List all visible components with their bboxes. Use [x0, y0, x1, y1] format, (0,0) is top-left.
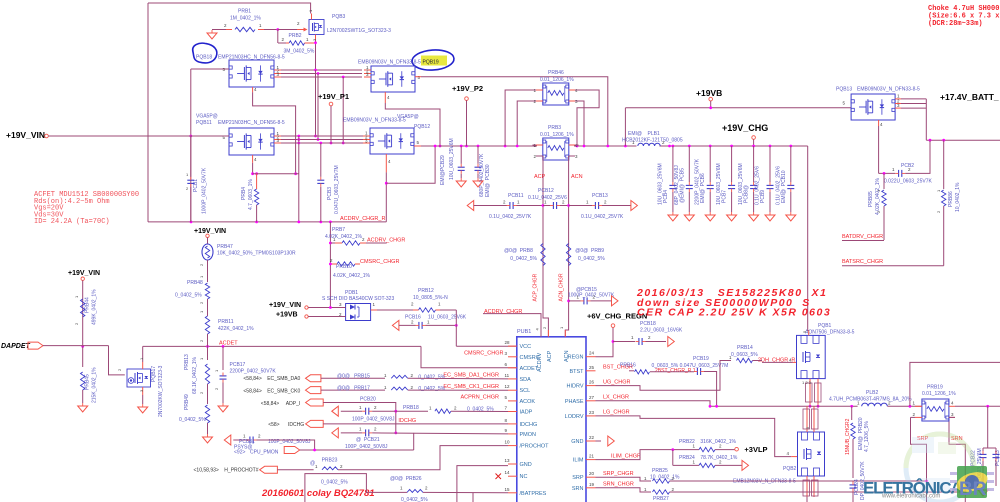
pin 1: [577, 295, 580, 300]
transistor PQB3: [309, 20, 324, 35]
label PCB20: [360, 397, 376, 403]
wire battery loop: [910, 362, 1000, 406]
svg-text:4.7_1206_5%: 4.7_1206_5%: [864, 421, 870, 452]
pin number 7: [505, 406, 508, 411]
pin: [536, 100, 543, 102]
svg-text:680P_0402_50V7K: 680P_0402_50V7K: [479, 153, 485, 197]
svg-text:PHASE: PHASE: [565, 399, 584, 405]
label PRB48: [187, 280, 203, 286]
svg-text:PQB11: PQB11: [196, 120, 212, 126]
svg-text:CMSRC: CMSRC: [520, 355, 540, 361]
svg-text:PQB3: PQB3: [332, 14, 346, 20]
capacitor PCB1: [187, 177, 194, 187]
wire PCB11 to ACP: [517, 205, 544, 207]
wire to PDB1 pin2: [308, 316, 345, 318]
pin 2: [908, 167, 911, 172]
junction: [668, 145, 671, 148]
value PCB12: [528, 195, 567, 201]
svg-text:@EMI@ PCB5: @EMI@ PCB5: [679, 168, 685, 203]
junction: [709, 145, 712, 148]
wire PCB3 bottom: [320, 187, 322, 222]
ground PRB49: [203, 434, 213, 443]
highlight PQB19 yellow: [421, 56, 447, 66]
value PRB1: [230, 16, 261, 22]
value PRB7: [325, 234, 363, 240]
wire PCB12 to ACN: [560, 205, 569, 207]
wire PQB13 to 17V rail: [925, 99, 927, 140]
svg-text:27: 27: [589, 395, 595, 400]
wire Q1 d1: [281, 69, 362, 71]
junction: [317, 138, 320, 141]
wire BATPRES left: [305, 474, 407, 502]
pin 1: [277, 65, 280, 70]
svg-text:26: 26: [589, 380, 595, 385]
wire PQB3 source down: [315, 40, 317, 70]
pin 2: [454, 406, 457, 411]
wire @EMI@ PCB5 bottom: [688, 192, 690, 212]
svg-text:15: 15: [505, 487, 511, 492]
wire ACDET to pin6: [421, 346, 517, 367]
wire +19VB rail: [625, 107, 851, 109]
junction: [319, 142, 322, 145]
capacitor PCB29: [458, 164, 465, 174]
wire to PCB11: [474, 205, 507, 207]
svg-text:+19V_P2: +19V_P2: [452, 84, 483, 93]
svg-text:PRB3: PRB3: [548, 125, 561, 131]
junction: [504, 145, 507, 148]
wire PQB17 drain up: [142, 346, 144, 362]
pin PQB2 source b: [813, 476, 815, 497]
svg-text:S SCH DIO BAS40CW SOT-323: S SCH DIO BAS40CW SOT-323: [322, 296, 394, 302]
junction: [329, 263, 332, 266]
svg-text:ACP: ACP: [547, 350, 553, 362]
svg-text:68.1K_0402_1%: 68.1K_0402_1%: [192, 356, 198, 394]
pin 2: [366, 68, 369, 73]
name SDA: [520, 377, 532, 383]
junction: [329, 306, 332, 309]
svg-text:ACDRV_CHGR: ACDRV_CHGR: [367, 238, 405, 244]
svg-text:ACPRN_CHGR: ACPRN_CHGR: [460, 395, 499, 401]
svg-text:100P_0402_50V8J: 100P_0402_50V8J: [352, 417, 395, 423]
wire Q3 pin4 jog: [385, 103, 440, 146]
label PRB15: [337, 374, 370, 380]
resistor PRB24: [699, 463, 715, 467]
svg-text:10K_0402_50%_TPM0S103P130R: 10K_0402_50%_TPM0S103P130R: [217, 251, 296, 257]
svg-text:www.eletronicabr.com: www.eletronicabr.com: [881, 494, 940, 500]
ground PCB8@: [749, 212, 759, 221]
pin 2: [186, 186, 189, 191]
svg-text:4.02K_0402_1%: 4.02K_0402_1%: [325, 234, 363, 240]
resistor PRB7: [342, 241, 360, 245]
power +19V_VIN col3: [206, 234, 209, 237]
wire PRB1 to node: [264, 29, 278, 31]
pin PQB2 gate: [791, 456, 797, 458]
svg-text:(DCR:28m~33m): (DCR:28m~33m): [928, 20, 983, 28]
wire to VCC: [456, 345, 517, 347]
junction: [206, 345, 209, 348]
value PCB3: [334, 165, 340, 214]
svg-text:EMI@PCB29: EMI@PCB29: [440, 155, 446, 185]
value @EMI@ PCB5: [674, 165, 680, 205]
value PRB23: [321, 480, 348, 486]
svg-text:21: 21: [589, 454, 595, 459]
annotation choke: [928, 5, 1000, 28]
transistor Q1 EMP21N03HC: [229, 60, 274, 87]
wire to PCB31: [233, 439, 246, 441]
svg-text:GND: GND: [571, 439, 583, 445]
svg-text:+19VB: +19VB: [696, 88, 722, 98]
resistor PRB1: [235, 27, 255, 31]
wire to PCB17: [222, 346, 224, 370]
off-page connector PCB31: [224, 435, 231, 445]
svg-text:1 2 3: 1 2 3: [802, 380, 812, 385]
power +19VB: [709, 97, 713, 107]
wire PCB22 top: [982, 448, 984, 451]
svg-text:PCB20: PCB20: [360, 397, 376, 403]
pin 1: [586, 200, 589, 205]
pin number 13: [505, 458, 511, 463]
pin number 27: [589, 395, 595, 400]
pin 4 PQB2: [786, 451, 789, 456]
svg-text:2N7002KW_SOT323-3: 2N7002KW_SOT323-3: [158, 365, 164, 417]
svg-text:SDA: SDA: [520, 377, 532, 383]
annotation 20160601: [261, 488, 375, 499]
pin PDB1 cathode: [371, 309, 377, 311]
pin 27 PHASE: [586, 400, 596, 402]
junction: [342, 76, 345, 79]
wire SRN long: [670, 491, 966, 493]
net ACP_CHGR: [533, 273, 539, 301]
label @EMI@ PCB5: [679, 168, 685, 203]
net LX_CHGR: [603, 395, 629, 401]
svg-text:PRB16: PRB16: [620, 363, 636, 369]
wire PRB23 to PROCHOT: [338, 446, 508, 470]
svg-text:<58,84>: <58,84>: [243, 376, 261, 382]
wire Q4 pin4 down: [385, 172, 387, 222]
svg-text:ACP: ACP: [534, 174, 546, 180]
label EMI@ PCB10: [781, 170, 787, 203]
pin: [413, 309, 419, 311]
svg-text:L2N7002SWT1G_SOT323-3: L2N7002SWT1G_SOT323-3: [327, 28, 391, 34]
pin 7 IADP: [508, 411, 517, 413]
wire to PCB22/23: [987, 406, 989, 448]
ref CPU_PMON: [234, 450, 245, 456]
name IADP: [520, 410, 533, 416]
capacitor PCB2: [895, 170, 905, 177]
label PRB8 at: [504, 248, 533, 254]
svg-text:+19V_VIN: +19V_VIN: [6, 130, 45, 140]
wire PCB13 to portal: [602, 205, 631, 207]
capacitor PCB15: [581, 297, 591, 304]
label PRB26: [390, 476, 422, 482]
net EC_SMB_CK1_CHGR: [443, 384, 499, 390]
net DH_CHGR_R: [758, 358, 795, 364]
svg-text:<10,58,93>: <10,58,93>: [194, 468, 219, 474]
wire PCB4 top: [672, 146, 674, 182]
pin: [364, 73, 371, 75]
transistor PQB17: [127, 369, 151, 387]
pin 24 REGN: [586, 356, 596, 358]
wire PRB2 up to gate node: [277, 30, 279, 44]
ground PCB30: [473, 178, 483, 187]
pin 1: [429, 406, 432, 411]
value PRB45: [92, 367, 98, 403]
wire UG_CHGR: [596, 361, 732, 391]
svg-text:BATSRC_CHGR: BATSRC_CHGR: [842, 259, 883, 265]
pin number 20: [589, 471, 595, 476]
label PRB10: [336, 264, 352, 270]
svg-text:20160601 colay BQ24781: 20160601 colay BQ24781: [261, 488, 375, 499]
junction: [314, 69, 317, 72]
net +19V_P1: [318, 92, 349, 101]
value PRB25: [650, 475, 680, 481]
label PRB22: [679, 439, 695, 445]
wire +19VB to rail: [624, 108, 626, 146]
svg-text:0.1U_0402_25V6: 0.1U_0402_25V6: [775, 166, 781, 205]
junction: [606, 145, 609, 148]
svg-text:BR: BR: [959, 479, 987, 500]
pin 2: [282, 37, 285, 42]
ground PCB9: [765, 212, 775, 221]
pin Q4 pin4: [385, 154, 387, 172]
net +19V_P2: [452, 84, 483, 93]
svg-text:ILIM_CHGR: ILIM_CHGR: [611, 453, 641, 459]
label PQB11: [196, 120, 212, 126]
pin 3 PRB19: [951, 412, 954, 417]
pin 2 PLB1: [662, 140, 665, 145]
wire PCB29 top: [460, 146, 462, 164]
svg-text:AON7506_DFN33-8-5: AON7506_DFN33-8-5: [805, 330, 855, 336]
pin 3: [575, 154, 578, 159]
svg-text:PUB1: PUB1: [517, 329, 531, 335]
junction: [294, 172, 297, 175]
wire PRB24 out: [715, 464, 742, 466]
name ACOK: [520, 399, 536, 405]
pin 1: [359, 405, 362, 410]
pin number 3: [505, 351, 508, 356]
value PQB13: [857, 87, 920, 93]
pin 1: [74, 295, 79, 298]
svg-text:1M_0402_1%: 1M_0402_1%: [230, 16, 261, 22]
svg-text:ADP_I: ADP_I: [286, 401, 300, 407]
net +19VB: [696, 88, 722, 98]
power +19V_VIN col2: [81, 277, 84, 280]
pin: [363, 139, 370, 141]
pin: [274, 73, 281, 75]
pin 1 PRB19: [912, 401, 915, 406]
svg-text:<58,84>: <58,84>: [243, 388, 261, 394]
pin 1: [892, 167, 895, 172]
pin number 15: [505, 487, 511, 492]
svg-text:PRB11: PRB11: [218, 319, 234, 325]
label PQB1: [818, 323, 832, 329]
svg-text:PQB19: PQB19: [423, 60, 439, 66]
junction: [276, 28, 279, 31]
junction: [883, 172, 886, 175]
wire PRB12 to node: [440, 309, 456, 311]
wire PRB46 p1: [505, 90, 536, 146]
pin PQB17 drain: [142, 362, 144, 369]
label PSYS@: [234, 445, 252, 451]
wire 17V rail: [926, 139, 1000, 141]
pin 2: [411, 319, 414, 324]
svg-text:PRB18: PRB18: [403, 405, 419, 411]
svg-text:28: 28: [505, 340, 511, 345]
net ACP: [534, 174, 546, 180]
net +19V_VIN small: [269, 302, 301, 309]
pin 10 /PROCHOT: [508, 445, 517, 447]
wire bus v3: [342, 77, 344, 143]
svg-text:24: 24: [589, 351, 595, 356]
resistor PRB25: [653, 479, 670, 483]
wire PCB16 node: [426, 324, 457, 326]
svg-text:CMSRC_CHGR: CMSRC_CHGR: [464, 351, 503, 357]
junction: [394, 410, 397, 413]
capacitor EMI@ PCB6: [707, 182, 714, 192]
label @: [310, 461, 315, 467]
name ILIM: [573, 458, 584, 464]
junction: [394, 432, 397, 435]
junction: [542, 204, 545, 207]
pin 1: [631, 335, 634, 340]
thermistor PRB47: [202, 244, 213, 260]
pin 9 PMON: [508, 433, 517, 435]
value PLB2: [829, 397, 912, 403]
capacitor PCB18: [636, 338, 646, 345]
pin 4: [387, 95, 390, 100]
net ADP_I: [286, 401, 300, 407]
wire PRB46 p4: [575, 90, 599, 146]
value PDB1: [322, 296, 394, 302]
pin 2: [277, 134, 280, 139]
pin 15 /BATPRES: [508, 492, 517, 494]
pin PQB13 source: [878, 120, 880, 126]
svg-text:+19V_VIN: +19V_VIN: [68, 270, 100, 277]
value PRB10: [333, 273, 371, 279]
pin 2: [411, 373, 414, 378]
pin number 23: [589, 410, 595, 415]
value PRB44: [92, 289, 98, 325]
svg-text:1000P_0402_50V7K: 1000P_0402_50V7K: [202, 167, 208, 214]
name SRP: [572, 475, 584, 481]
wire ground to PRB1: [212, 29, 226, 31]
svg-text:422K_0402_1%: 422K_0402_1%: [218, 326, 254, 332]
pin 2: [199, 339, 204, 342]
pin number 10: [505, 440, 511, 445]
capacitor PCB30: [475, 164, 482, 174]
pin 4: [789, 358, 792, 363]
svg-text:<58>: <58>: [268, 422, 279, 428]
diode PDB1: [346, 304, 371, 321]
svg-text:ACOK: ACOK: [520, 399, 536, 405]
pin boxes PQB2 top: [803, 409, 818, 429]
label PRB19: [927, 385, 943, 391]
value PCB16: [428, 315, 467, 321]
wire Q2 d2: [281, 139, 366, 141]
pin: [355, 263, 360, 265]
svg-text:PQB1: PQB1: [818, 323, 832, 329]
pin 1: [365, 131, 368, 136]
svg-text:+19V_P1: +19V_P1: [318, 92, 349, 101]
pin: [360, 242, 366, 244]
value PRB16: [652, 363, 729, 369]
net ACDET: [219, 341, 238, 347]
junction: [909, 405, 912, 408]
wire SRN to PRB27: [596, 488, 652, 492]
wire DAPDET: [43, 345, 109, 347]
junction: [385, 182, 388, 185]
svg-text:PCB11: PCB11: [508, 193, 524, 199]
junction: [81, 345, 84, 348]
label PUB1: [517, 329, 531, 335]
pin 1 PRB27: [644, 487, 647, 492]
label PRB47: [217, 244, 233, 250]
wire to PRB86: [943, 140, 945, 189]
wire EMI@ PCB6 bottom: [709, 192, 711, 212]
pin PQB3 gate: [297, 29, 304, 31]
label PRB27: [653, 496, 669, 502]
capacitor PCB3: [317, 177, 324, 187]
wire PRB49 down: [207, 423, 209, 434]
pin 1: [199, 275, 204, 278]
pin: [363, 135, 370, 137]
svg-text:SRP_CHGR: SRP_CHGR: [603, 471, 634, 477]
pin 1: [277, 131, 280, 136]
svg-text:EC_SMB_DA0: EC_SMB_DA0: [267, 376, 300, 382]
pin 2: [533, 154, 536, 159]
pin: [274, 139, 281, 141]
wire BATSRC: [842, 265, 944, 267]
wire SRN riser: [949, 417, 965, 502]
svg-text:499K_0402_1%: 499K_0402_1%: [92, 289, 98, 325]
label PQB3: [332, 14, 346, 20]
svg-text:0_0402_5%: 0_0402_5%: [179, 417, 206, 423]
wire LX_CHGR: [596, 401, 711, 407]
svg-text:EMI@ PCB6: EMI@ PCB6: [700, 173, 706, 203]
pin 1 PLB1: [632, 140, 635, 145]
svg-text:LX_CHGR: LX_CHGR: [603, 395, 629, 401]
svg-text:PRB13: PRB13: [184, 354, 190, 370]
label PRB25: [652, 468, 668, 474]
pin: [274, 76, 281, 78]
pin: [363, 142, 370, 144]
junction: [850, 405, 853, 408]
wire PCB9 bottom: [769, 192, 771, 212]
svg-text:13: 13: [505, 458, 511, 463]
junction: [688, 145, 691, 148]
pin 2: [340, 464, 343, 469]
svg-text:EMI@ PCB30: EMI@ PCB30: [485, 164, 491, 197]
wire switch rail: [710, 405, 858, 407]
svg-text:SCL: SCL: [520, 388, 531, 394]
net ACN: [571, 174, 583, 180]
wire to PRB24: [673, 464, 699, 466]
pin ACP: [547, 330, 549, 337]
pin 1 PRB24: [693, 459, 696, 464]
wire ACP to PCB12: [543, 205, 550, 207]
pin: [226, 29, 232, 31]
pin 8 IDCHG: [508, 423, 517, 425]
wire REGN up: [596, 327, 614, 357]
resistor PRB49: [205, 405, 209, 423]
label PRB17b: [337, 385, 370, 391]
pin 4: [575, 143, 578, 148]
wire PRB14 out: [753, 360, 763, 362]
wire PQB13 d1: [901, 98, 926, 100]
value PCB15: [568, 293, 615, 299]
pin 1: [315, 464, 318, 469]
pin: [286, 42, 289, 44]
